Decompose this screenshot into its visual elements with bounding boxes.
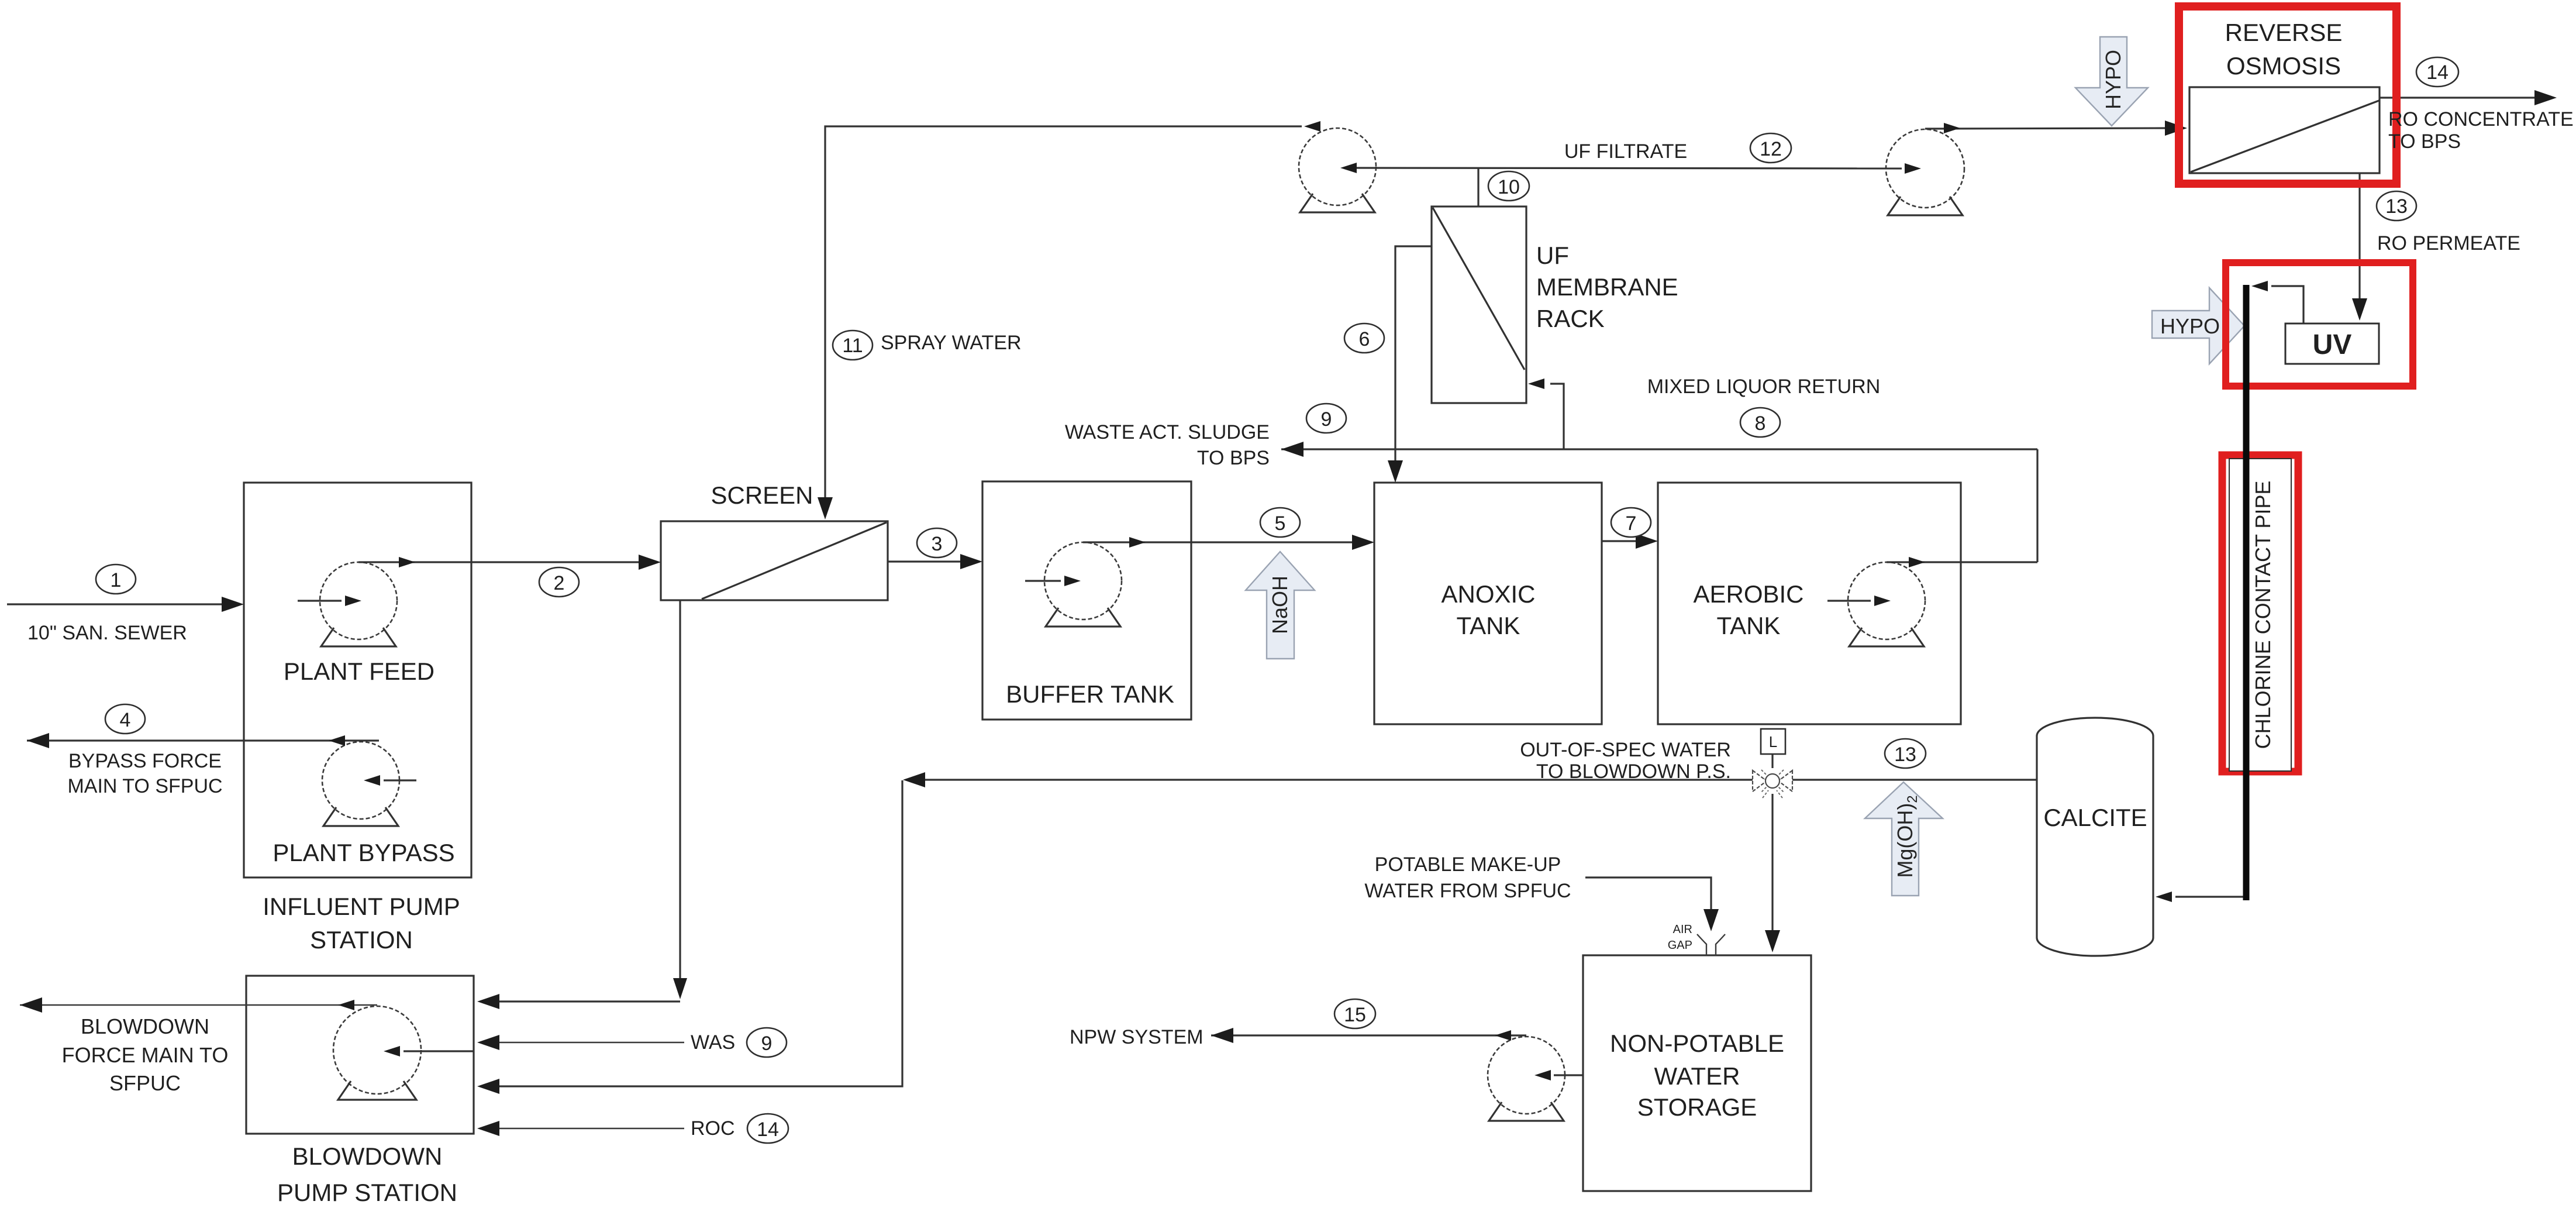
svg-text:UF FILTRATE: UF FILTRATE	[1564, 140, 1687, 163]
svg-text:AIR: AIR	[1673, 923, 1692, 936]
node 6	[1344, 323, 1384, 353]
red highlight box UV	[2226, 263, 2413, 386]
svg-text:15: 15	[1344, 1004, 1366, 1026]
wire spray water 11	[818, 121, 1320, 519]
anoxic tank box	[1374, 483, 1602, 724]
wire screen underflow to blowdown	[477, 600, 687, 1009]
wire blowdown force main out	[20, 997, 377, 1013]
red highlight box chlorine contact pipe	[2222, 455, 2298, 772]
svg-text:TANK: TANK	[1457, 612, 1520, 639]
node 2	[539, 567, 579, 597]
svg-text:HYPO: HYPO	[2101, 50, 2125, 109]
svg-text:WATER FROM SPFUC: WATER FROM SPFUC	[1364, 880, 1571, 902]
svg-text:MEMBRANE: MEMBRANE	[1536, 273, 1678, 301]
svg-text:OUT-OF-SPEC WATER: OUT-OF-SPEC WATER	[1520, 739, 1731, 761]
svg-text:RO CONCENTRATE: RO CONCENTRATE	[2388, 108, 2574, 130]
svg-text:TO BLOWDOWN P.S.: TO BLOWDOWN P.S.	[1536, 760, 1731, 783]
svg-text:SCREEN: SCREEN	[711, 481, 813, 509]
wire ROC to blowdown	[477, 1121, 684, 1136]
svg-text:OSMOSIS: OSMOSIS	[2226, 52, 2341, 80]
node 14 concentrate	[2416, 57, 2458, 87]
node 15	[1334, 999, 1375, 1028]
chem arrow NaOH	[1246, 552, 1315, 659]
UF membrane rack box	[1432, 207, 1526, 403]
svg-text:9: 9	[1321, 408, 1332, 431]
svg-text:STORAGE: STORAGE	[1637, 1093, 1757, 1121]
svg-text:TO BPS: TO BPS	[1197, 447, 1270, 469]
wire stream 15 npw system	[1211, 1028, 1526, 1043]
chlorine label white box	[2229, 459, 2291, 771]
wire buffer pump inlet	[1025, 576, 1081, 586]
chem arrow Mg(OH)2	[1865, 782, 1943, 896]
L box instrument	[1761, 729, 1785, 754]
chlorine contact pipe thick line	[2243, 285, 2250, 900]
node 11	[833, 331, 873, 360]
svg-text:ROC: ROC	[691, 1117, 735, 1140]
svg-text:POTABLE MAKE-UP: POTABLE MAKE-UP	[1375, 853, 1561, 876]
pump P8 npw	[1488, 1037, 1565, 1121]
svg-text:ANOXIC: ANOXIC	[1441, 580, 1535, 608]
pump P4 UF backwash left	[1299, 128, 1376, 212]
svg-text:1: 1	[111, 569, 122, 591]
wire UV to contact pipe elbow	[2251, 281, 2303, 323]
svg-text:TANK: TANK	[1717, 612, 1781, 639]
node 7	[1611, 508, 1651, 537]
svg-text:BYPASS FORCE: BYPASS FORCE	[68, 750, 222, 772]
svg-text:STATION: STATION	[310, 926, 413, 954]
node 9 blowdown	[747, 1028, 787, 1057]
node 3	[917, 528, 957, 557]
wire stream 14 RO concentrate	[2380, 90, 2557, 105]
calcite tank	[2037, 718, 2153, 956]
wire blowdown pump inlet	[384, 1046, 474, 1056]
svg-text:BLOWDOWN: BLOWDOWN	[292, 1142, 443, 1170]
svg-text:10" SAN. SEWER: 10" SAN. SEWER	[27, 622, 187, 644]
influent pump station box	[244, 483, 471, 877]
svg-text:7: 7	[1626, 512, 1637, 535]
wire stream 6 UF feed	[1388, 246, 1432, 483]
svg-text:2: 2	[554, 572, 565, 594]
blowdown pump station box	[246, 976, 474, 1134]
svg-text:L: L	[1769, 733, 1777, 751]
buffer tank box	[982, 481, 1191, 720]
svg-text:MAIN TO SFPUC: MAIN TO SFPUC	[67, 775, 222, 797]
svg-text:UF: UF	[1536, 242, 1569, 269]
svg-text:SPRAY WATER: SPRAY WATER	[881, 332, 1022, 354]
svg-text:3: 3	[932, 533, 943, 555]
screen box	[661, 521, 888, 600]
svg-text:GAP: GAP	[1668, 939, 1692, 952]
svg-text:14: 14	[2426, 61, 2449, 84]
svg-text:Mg(OH)2: Mg(OH)2	[1893, 795, 1920, 877]
UV box	[2285, 323, 2379, 364]
wire RO feed line	[1925, 121, 2187, 136]
node 14 roc	[747, 1114, 788, 1143]
node 13 out-of-spec	[1885, 739, 1926, 768]
wire stream 4 bypass force main	[27, 733, 379, 748]
chem arrow HYPO right at UV	[2152, 288, 2244, 364]
svg-text:NPW SYSTEM: NPW SYSTEM	[1070, 1026, 1203, 1048]
node 1	[96, 565, 136, 594]
svg-text:MIXED LIQUOR RETURN: MIXED LIQUOR RETURN	[1647, 376, 1881, 398]
svg-text:TO BPS: TO BPS	[2388, 130, 2461, 153]
svg-text:13: 13	[1894, 744, 1916, 766]
svg-text:NON-POTABLE: NON-POTABLE	[1610, 1030, 1784, 1057]
pump P7 blowdown	[333, 1006, 421, 1100]
red highlight box reverse osmosis	[2179, 6, 2396, 184]
svg-text:CHLORINE CONTACT PIPE: CHLORINE CONTACT PIPE	[2251, 481, 2275, 749]
svg-text:NaOH: NaOH	[1268, 576, 1292, 634]
svg-text:RO PERMEATE: RO PERMEATE	[2377, 232, 2520, 254]
svg-text:WASTE ACT. SLUDGE: WASTE ACT. SLUDGE	[1065, 421, 1270, 443]
svg-text:BLOWDOWN: BLOWDOWN	[81, 1014, 209, 1038]
air gap funnel	[1697, 934, 1725, 955]
valve on out-of-spec line	[1753, 770, 1792, 798]
wire stream 2 to screen	[358, 555, 661, 570]
aerobic tank box	[1658, 483, 1961, 724]
svg-text:13: 13	[2385, 195, 2408, 218]
svg-text:HYPO: HYPO	[2160, 314, 2220, 338]
wire WAS to blowdown	[477, 1035, 684, 1050]
svg-text:PLANT BYPASS: PLANT BYPASS	[273, 839, 454, 866]
svg-text:WATER: WATER	[1654, 1062, 1740, 1090]
svg-text:5: 5	[1275, 512, 1286, 535]
wire UF filtrate 10 12	[1340, 163, 1921, 174]
wire valve to NPW storage	[1765, 794, 1780, 952]
svg-text:6: 6	[1359, 328, 1370, 350]
svg-text:PLANT FEED: PLANT FEED	[284, 658, 434, 685]
svg-text:FORCE MAIN TO: FORCE MAIN TO	[62, 1043, 229, 1067]
wire calcite inlet from pipe	[2156, 892, 2246, 902]
wire aerobic pump inlet	[1827, 596, 1891, 606]
pump P1 plant feed	[320, 562, 397, 646]
svg-text:11: 11	[842, 335, 863, 357]
wire plant feed inlet	[298, 596, 361, 606]
svg-text:12: 12	[1760, 138, 1782, 160]
wire stream 13 RO permeate	[2352, 173, 2367, 321]
node 4	[105, 704, 145, 734]
svg-text:INFLUENT PUMP: INFLUENT PUMP	[263, 893, 460, 920]
wire npw pump inlet	[1534, 1070, 1583, 1080]
pump P2 plant bypass	[322, 742, 399, 826]
svg-text:UV: UV	[2313, 329, 2352, 360]
wire stream 5 buffer to anoxic	[1083, 535, 1374, 550]
svg-text:SFPUC: SFPUC	[109, 1071, 181, 1095]
wire mixed liquor return 8 and WAS 9	[1281, 378, 2037, 567]
svg-text:9: 9	[761, 1033, 773, 1055]
non-potable water storage box	[1583, 955, 1811, 1191]
node 10	[1488, 171, 1529, 201]
svg-text:4: 4	[120, 709, 131, 731]
wire UF rack top junction	[1477, 167, 1479, 207]
node 5	[1260, 508, 1300, 537]
wire stream 13 out-of-spec line	[477, 772, 2037, 1094]
wire stream 1 san sewer	[7, 597, 244, 612]
pump P3 buffer tank	[1044, 542, 1122, 627]
svg-text:10: 10	[1498, 176, 1520, 198]
svg-text:RACK: RACK	[1536, 305, 1605, 332]
svg-text:14: 14	[757, 1118, 779, 1141]
node 13 permeate	[2377, 191, 2416, 221]
wire plant bypass inlet	[364, 775, 416, 786]
svg-text:REVERSE: REVERSE	[2225, 19, 2343, 46]
chem arrow HYPO down at RO	[2075, 37, 2148, 126]
svg-text:8: 8	[1755, 412, 1766, 435]
reverse osmosis box	[2189, 87, 2380, 173]
wire valve to L box	[1771, 754, 1773, 768]
wire potable make-up line	[1585, 877, 1719, 931]
wire stream 7 anoxic to aerobic	[1602, 534, 1658, 549]
svg-text:AEROBIC: AEROBIC	[1693, 580, 1803, 608]
svg-text:WAS: WAS	[691, 1031, 735, 1054]
node 12	[1750, 133, 1791, 163]
svg-text:BUFFER TANK: BUFFER TANK	[1006, 680, 1174, 708]
pump P6 aerobic	[1848, 562, 1925, 646]
wire stream 3 screen to buffer	[888, 554, 982, 569]
pump P5 RO feed right	[1886, 129, 1964, 215]
node 8	[1740, 408, 1780, 437]
svg-text:CALCITE: CALCITE	[2043, 804, 2147, 831]
svg-text:PUMP STATION: PUMP STATION	[277, 1179, 457, 1206]
node 9 was top	[1306, 404, 1346, 433]
